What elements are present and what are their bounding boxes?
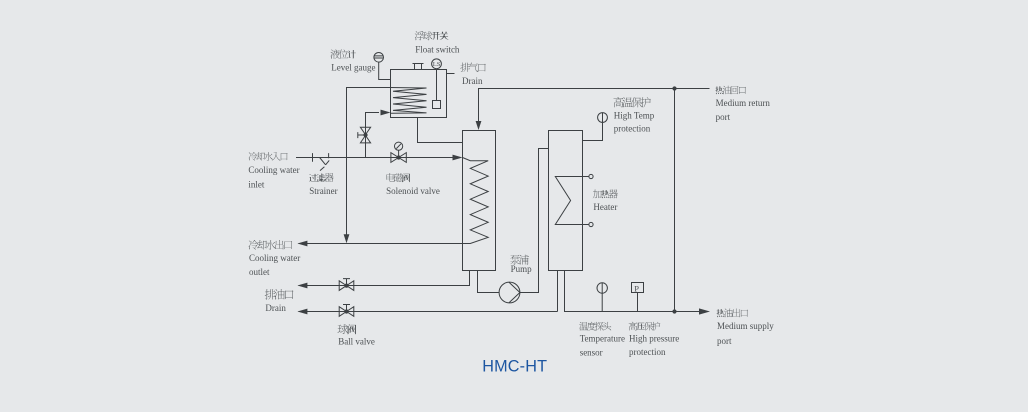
label ball-valve-cn bbox=[338, 324, 356, 334]
high temp protection sensor TS1 bbox=[598, 113, 608, 123]
svg-text:High Temp: High Temp bbox=[614, 110, 655, 120]
svg-text:Cooling water: Cooling water bbox=[249, 253, 300, 263]
label pump-cn bbox=[510, 255, 529, 265]
junction dot bottom bbox=[672, 309, 676, 313]
float ball B1 bbox=[433, 101, 441, 109]
arrow into tank T1 bbox=[381, 110, 391, 116]
label float-switch-cn bbox=[415, 31, 449, 40]
label vent-cn bbox=[460, 63, 485, 72]
label drain-cn bbox=[265, 289, 294, 299]
solenoid valve SV1 bbox=[391, 142, 406, 162]
wire: float switch stem bbox=[436, 69, 438, 101]
label high-pressure-cn bbox=[629, 322, 661, 331]
wire: cooling water inlet main bbox=[296, 157, 454, 159]
vessel V1 bbox=[463, 131, 496, 271]
wire: drain line 1 bbox=[299, 285, 463, 287]
wire: medium supply line bbox=[565, 271, 701, 312]
wire: drain line 2 (bottom) bbox=[299, 311, 558, 313]
svg-text:Level gauge: Level gauge bbox=[331, 62, 375, 72]
svg-text:High pressure: High pressure bbox=[629, 334, 679, 344]
label solenoid-cn bbox=[387, 173, 410, 182]
svg-text:Drain: Drain bbox=[265, 303, 286, 313]
needle valve NV1 bbox=[358, 127, 371, 143]
wire: pump discharge to vessel V2 bbox=[520, 149, 549, 293]
label cooling-inlet-cn bbox=[249, 152, 288, 161]
wire: level gauge to tank bbox=[379, 62, 391, 79]
svg-text:Drain: Drain bbox=[462, 76, 483, 86]
svg-text:Float switch: Float switch bbox=[415, 44, 460, 54]
arrow into vessel V1 top bbox=[476, 121, 482, 130]
wire: vessel V1 drain stub bbox=[462, 271, 470, 286]
svg-text:inlet: inlet bbox=[248, 179, 264, 189]
svg-text:protection: protection bbox=[614, 124, 651, 134]
wire: temperature sensor stem bbox=[601, 293, 603, 311]
heater element H1 bbox=[555, 174, 593, 226]
svg-text:LS: LS bbox=[433, 61, 441, 68]
coil inside tank T1 bbox=[391, 88, 427, 114]
label high-temp-cn bbox=[613, 97, 650, 107]
float switch LS bbox=[432, 59, 442, 69]
label return-port-cn bbox=[715, 86, 745, 94]
svg-text:sensor: sensor bbox=[580, 348, 603, 358]
wire: bypass riser (node B) bbox=[674, 89, 676, 312]
svg-text:protection: protection bbox=[629, 347, 666, 357]
level gauge LG bbox=[374, 53, 384, 63]
label heater-cn bbox=[593, 189, 618, 198]
junction dot top bbox=[672, 86, 676, 90]
svg-text:Strainer: Strainer bbox=[309, 186, 338, 196]
wire: vessel V2 left bottom stub bbox=[557, 271, 559, 312]
vessel V2 bbox=[549, 131, 583, 271]
wire: high temp sensor to vessel V2 bbox=[583, 122, 603, 140]
svg-text:port: port bbox=[716, 112, 731, 122]
arrow into vessel V1 bbox=[453, 155, 463, 161]
svg-text:Temperature: Temperature bbox=[580, 334, 625, 344]
strainer F1 bbox=[313, 153, 330, 171]
svg-text:Ball valve: Ball valve bbox=[338, 337, 375, 347]
svg-text:outlet: outlet bbox=[249, 267, 270, 277]
wire: medium return header bbox=[479, 89, 710, 129]
label temp-sensor-cn bbox=[579, 322, 611, 331]
tank T1 (water tank) bbox=[391, 70, 447, 118]
tank T1 top nozzle bbox=[413, 64, 424, 70]
arrow drain 2 bbox=[297, 309, 307, 315]
wire: pressure switch stem bbox=[637, 293, 639, 312]
label cooling-outlet-cn bbox=[249, 240, 293, 250]
label level-gauge-cn bbox=[330, 49, 355, 58]
svg-text:Heater: Heater bbox=[593, 202, 617, 212]
svg-text:HMC-HT: HMC-HT bbox=[482, 357, 547, 375]
wire: tank vent stub (drain port) bbox=[447, 73, 455, 75]
svg-text:Solenoid valve: Solenoid valve bbox=[386, 186, 440, 196]
arrow medium supply port bbox=[699, 308, 710, 314]
svg-text:port: port bbox=[717, 336, 732, 346]
pump P1 bbox=[499, 282, 520, 303]
svg-text:Medium return: Medium return bbox=[716, 98, 771, 108]
wire: vessel V1 to pump suction bbox=[478, 271, 500, 293]
svg-text:P: P bbox=[634, 283, 639, 293]
coil inside vessel V1 bbox=[463, 158, 489, 244]
wire: cooling water outlet line bbox=[299, 243, 463, 245]
label supply-port-cn bbox=[717, 309, 748, 318]
label strainer-cn bbox=[309, 173, 333, 182]
wire: tank bottom drain to vessel V1 bbox=[418, 118, 463, 143]
arrow onto cooling outlet line bbox=[344, 234, 350, 243]
high pressure switch PS1 bbox=[632, 283, 644, 294]
arrow drain 1 bbox=[297, 283, 307, 289]
svg-text:Cooling water: Cooling water bbox=[248, 165, 299, 175]
ball valve BV1 bbox=[339, 279, 354, 291]
arrow cooling water outlet bbox=[297, 241, 307, 247]
wire: tank coil outlet down-pipe (node A) bbox=[347, 88, 391, 242]
ball valve BV2 bbox=[339, 305, 354, 317]
temperature sensor TS2 bbox=[597, 283, 607, 293]
svg-text:Medium supply: Medium supply bbox=[717, 321, 774, 331]
svg-text:Pump: Pump bbox=[511, 264, 533, 274]
wire: needle valve branch riser bbox=[366, 113, 380, 158]
